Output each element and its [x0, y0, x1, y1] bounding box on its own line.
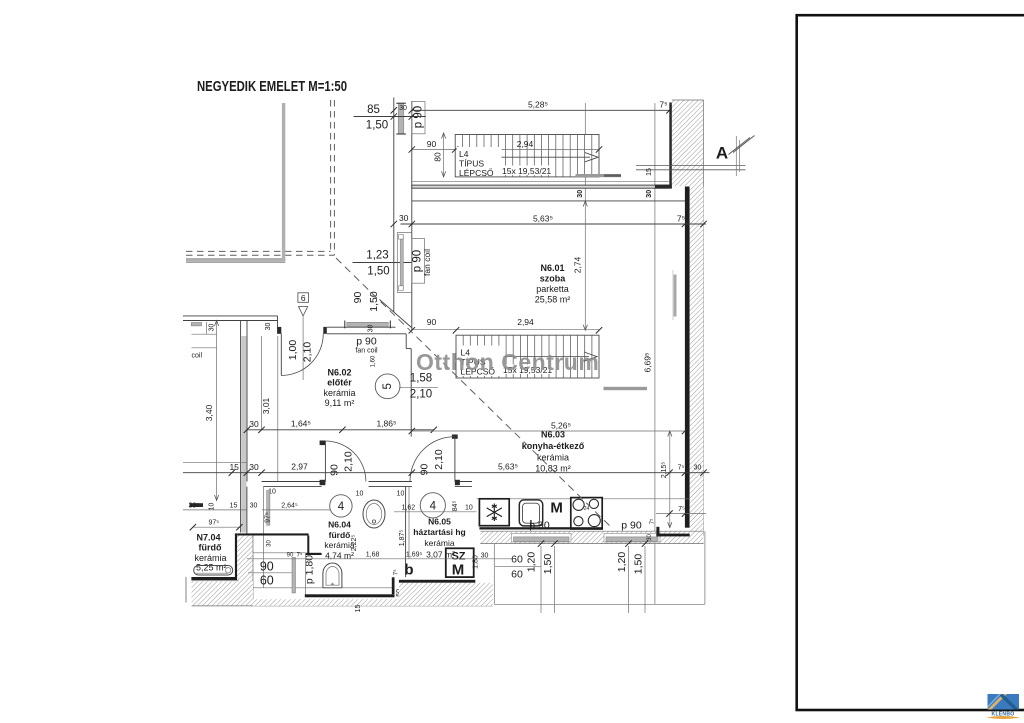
left fan coil window — [191, 323, 201, 326]
svg-text:30: 30 — [250, 503, 258, 510]
room N6.01 — [391, 186, 707, 536]
svg-text:N7.04: N7.04 — [197, 533, 221, 543]
stair labels — [458, 346, 504, 377]
svg-text:97⁵: 97⁵ — [208, 520, 219, 527]
svg-text:2,74: 2,74 — [573, 256, 583, 273]
svg-text:90: 90 — [427, 139, 437, 149]
svg-text:3,07 m²: 3,07 m² — [426, 550, 455, 560]
svg-text:9,11 m²: 9,11 m² — [325, 398, 355, 408]
svg-text:Otthon Centrum: Otthon Centrum — [416, 349, 599, 375]
svg-text:fan coil: fan coil — [355, 348, 378, 355]
fan coil bracket top — [412, 102, 425, 134]
terrace dims right — [628, 546, 630, 613]
svg-text:2,10: 2,10 — [433, 449, 445, 470]
svg-text:7⁵: 7⁵ — [297, 552, 303, 559]
room N6.02 and left walls — [183, 233, 438, 533]
kitchen N6.03 — [409, 420, 706, 613]
svg-text:1,68: 1,68 — [366, 552, 380, 559]
svg-text:5,28⁵: 5,28⁵ — [528, 100, 548, 110]
svg-text:N6.01: N6.01 — [540, 263, 564, 273]
svg-text:90: 90 — [329, 464, 341, 476]
svg-text:7⁵: 7⁵ — [677, 213, 685, 223]
svg-text:10: 10 — [397, 491, 405, 498]
svg-text:7⁵: 7⁵ — [393, 569, 400, 575]
gray balcony slab edge vertical — [282, 103, 285, 261]
middle wall with bath doors — [183, 418, 710, 497]
left neighbour wall faint — [185, 577, 187, 603]
top wall line — [412, 200, 687, 202]
svg-text:90: 90 — [419, 464, 431, 476]
long dashed diagonal — [336, 258, 613, 529]
svg-text:30: 30 — [694, 464, 702, 471]
counter dark underline — [479, 527, 602, 529]
counter top line — [477, 498, 690, 500]
svg-text:b: b — [404, 562, 413, 579]
svg-text:kerámia: kerámia — [323, 388, 355, 398]
dim 3,01 vertical — [261, 336, 263, 430]
wall top line segments — [262, 481, 322, 483]
svg-text:1,50: 1,50 — [632, 554, 644, 575]
svg-text:24: 24 — [584, 506, 590, 512]
stair labels — [457, 147, 502, 176]
svg-text:A: A — [716, 144, 728, 163]
svg-text:5: 5 — [382, 383, 394, 389]
gray balcony slab edge horizontal — [186, 258, 285, 261]
oval washbasin — [363, 500, 385, 528]
dim 2,74 vertical — [584, 201, 586, 330]
hatch strip right of N7.04 — [237, 536, 253, 605]
svg-text:1,50: 1,50 — [367, 266, 389, 278]
svg-text:kerámia: kerámia — [195, 553, 227, 563]
svg-text:1,86⁵: 1,86⁵ — [376, 418, 396, 428]
svg-text:2,94: 2,94 — [517, 139, 534, 149]
svg-text:N6.02: N6.02 — [327, 368, 351, 378]
right wall dark — [685, 187, 690, 528]
svg-text:2,97: 2,97 — [291, 461, 308, 471]
landing slab edge — [412, 180, 669, 182]
svg-text:1,62: 1,62 — [402, 505, 416, 512]
handrail gray bar — [604, 387, 648, 390]
svg-text:15: 15 — [355, 605, 362, 613]
svg-text:3,40: 3,40 — [204, 404, 214, 421]
svg-text:30: 30 — [265, 323, 272, 331]
svg-text:1,87⁵: 1,87⁵ — [399, 530, 406, 547]
svg-text:30: 30 — [577, 190, 584, 198]
svg-text:15x 19,53/21: 15x 19,53/21 — [502, 166, 551, 176]
right white panel — [797, 15, 1024, 710]
door N6.05 leaf + swing — [454, 437, 456, 482]
long dim line y=472.7 — [183, 472, 710, 474]
stove — [571, 498, 602, 529]
svg-text:1,60: 1,60 — [371, 355, 377, 367]
dark bottom wall — [305, 594, 395, 597]
svg-text:2,94: 2,94 — [517, 317, 534, 327]
svg-text:5,63⁵: 5,63⁵ — [533, 213, 553, 223]
labels under N7.04 area dims — [183, 509, 247, 511]
svg-text:háztartási hg: háztartási hg — [413, 527, 465, 537]
svg-text:2,64⁵: 2,64⁵ — [281, 503, 298, 510]
svg-text:3,01: 3,01 — [261, 397, 271, 414]
svg-text:p 90: p 90 — [356, 336, 377, 348]
svg-text:1,20: 1,20 — [526, 552, 538, 573]
svg-text:1,80: 1,80 — [473, 555, 480, 569]
hatch below N7.04 — [192, 582, 253, 606]
svg-text:2,10: 2,10 — [343, 451, 355, 472]
door N6.05 jambs — [452, 435, 458, 439]
svg-text:90: 90 — [260, 560, 274, 574]
svg-text:5,25 m²: 5,25 m² — [196, 563, 227, 573]
svg-text:1,23: 1,23 — [366, 250, 388, 262]
svg-text:1,50: 1,50 — [366, 120, 388, 132]
svg-text:L4: L4 — [459, 149, 469, 159]
wall right of door — [327, 326, 396, 328]
section line A-A — [636, 164, 746, 166]
svg-text:84⁵: 84⁵ — [452, 501, 459, 512]
wall piece dark — [655, 185, 672, 189]
svg-text:coil: coil — [192, 353, 203, 360]
N6.04 bottom line — [247, 587, 395, 589]
svg-text:7⁵: 7⁵ — [649, 518, 656, 524]
svg-text:6,69⁵: 6,69⁵ — [643, 352, 653, 372]
left boundary lines — [216, 321, 218, 501]
bathrooms N6.04 N6.05 N7.04 — [183, 487, 512, 613]
bath door jambs — [320, 480, 326, 485]
svg-text:4: 4 — [430, 501, 437, 513]
svg-text:konyha-étkező: konyha-étkező — [522, 441, 585, 451]
circle 4 N6.05 — [420, 493, 445, 518]
svg-text:60: 60 — [511, 569, 523, 581]
right wall dark line — [669, 103, 672, 189]
fan coil bracket 2 — [412, 239, 425, 284]
dim 90 / 2,94 line — [412, 149, 599, 151]
svg-text:6: 6 — [301, 293, 306, 303]
fridge — [479, 499, 509, 526]
dim 1,58 / 2,10 — [399, 387, 438, 389]
hatch + dark under SZ/M — [399, 580, 475, 583]
dim ext verticals — [584, 103, 586, 201]
hatch wall top right — [672, 100, 704, 186]
svg-text:30: 30 — [647, 534, 653, 541]
svg-text:szoba: szoba — [540, 274, 567, 284]
bottom hatch band with windows — [480, 531, 703, 543]
svg-text:N6.04: N6.04 — [328, 520, 351, 530]
left wall outer line — [393, 98, 395, 313]
svg-text:fan coil: fan coil — [422, 249, 432, 276]
hatch band bottom left — [253, 599, 493, 606]
dim line 30/1,64/1,86 — [247, 429, 434, 431]
handrail gray bar — [576, 174, 622, 177]
svg-text:1,50: 1,50 — [542, 554, 554, 575]
svg-text:15: 15 — [230, 503, 238, 510]
svg-text:30: 30 — [249, 462, 259, 472]
svg-text:1,50: 1,50 — [368, 291, 380, 312]
svg-text:2,22⁵: 2,22⁵ — [351, 535, 358, 552]
toilet — [323, 563, 342, 588]
svg-text:NEGYEDIK EMELET M=1:50: NEGYEDIK EMELET M=1:50 — [197, 79, 347, 95]
step dark — [307, 536, 309, 556]
svg-text:1,64⁵: 1,64⁵ — [291, 418, 311, 428]
small dims near N6.05 — [394, 511, 477, 513]
top exterior wall left segment — [183, 315, 278, 317]
dashed vertical pair — [330, 100, 332, 251]
left wall lines bottom — [183, 462, 247, 464]
svg-text:80: 80 — [433, 152, 443, 162]
chamfer wall diagonals — [380, 300, 412, 328]
towel radiator gray bar — [267, 491, 270, 526]
svg-text:p 90: p 90 — [413, 106, 425, 128]
N6.04 left lines — [246, 487, 248, 596]
window w1 gray bar — [398, 103, 404, 134]
dim 90 / 2,94 — [412, 328, 599, 330]
stair flight 1 — [455, 135, 599, 177]
svg-text:30: 30 — [646, 190, 653, 198]
svg-text:85: 85 — [367, 104, 380, 116]
left wall inner line — [411, 101, 413, 331]
N7.04 dark walls — [235, 533, 237, 579]
svg-text:M: M — [550, 500, 563, 517]
svg-text:7⁵: 7⁵ — [659, 100, 667, 110]
svg-text:M: M — [452, 562, 465, 579]
stair walk line + arrow — [457, 156, 590, 158]
stair hall top — [354, 98, 755, 605]
top dim line 5,28 — [412, 109, 676, 111]
walk line + arrow — [459, 356, 589, 358]
stair flight 2 — [409, 317, 647, 390]
svg-text:30: 30 — [267, 540, 273, 547]
terrace outline — [493, 544, 495, 605]
dim 5,26 — [412, 430, 686, 432]
svg-text:90: 90 — [287, 553, 294, 559]
svg-text:7⁵: 7⁵ — [678, 506, 685, 513]
svg-text:2,10: 2,10 — [410, 389, 432, 401]
door N6.04 leaf + swing — [324, 441, 326, 482]
wall bottom line segments — [263, 486, 321, 488]
svg-text:kerámia: kerámia — [424, 538, 455, 548]
svg-text:5,26⁵: 5,26⁵ — [551, 420, 571, 430]
svg-text:39⁵: 39⁵ — [188, 503, 199, 510]
dashed horizontal pair — [186, 250, 331, 252]
svg-text:10,83 m²: 10,83 m² — [535, 463, 571, 473]
svg-text:10: 10 — [209, 503, 216, 511]
svg-text:p 90: p 90 — [621, 520, 642, 532]
svg-text:LÉPCSŐ: LÉPCSŐ — [459, 168, 494, 178]
svg-text:parketta: parketta — [536, 284, 569, 294]
svg-text:10: 10 — [356, 491, 364, 498]
SZ M box — [446, 548, 474, 577]
dim 85 / 1,50 — [354, 116, 426, 118]
terrace above: dashed outline — [186, 100, 334, 262]
svg-text:1,20: 1,20 — [616, 552, 628, 573]
hatch right wall — [690, 186, 704, 536]
wall N6.04/N6.05 — [405, 487, 407, 577]
svg-text:1,00: 1,00 — [287, 340, 299, 361]
marker 6 — [298, 293, 309, 303]
balcony door gray bar — [674, 275, 677, 317]
svg-text:1,69⁵: 1,69⁵ — [406, 552, 423, 559]
dim 1,23 / 1,50 — [353, 262, 412, 264]
svg-text:60: 60 — [511, 554, 523, 566]
dim 2,15 vertical right — [669, 431, 671, 528]
small dims right wall — [656, 513, 706, 515]
svg-text:kerámia: kerámia — [537, 453, 569, 463]
entrance door leaf + swing — [280, 334, 282, 376]
svg-text:fürdő: fürdő — [329, 530, 351, 540]
svg-text:60: 60 — [260, 574, 274, 588]
sink — [519, 500, 542, 526]
logo bottom right — [986, 694, 1020, 719]
entrance door jambs — [278, 327, 282, 334]
circle 5 — [375, 374, 400, 399]
svg-text:4: 4 — [338, 501, 345, 513]
svg-text:90: 90 — [352, 292, 364, 304]
circle 4 N6.04 — [330, 495, 352, 517]
svg-text:90: 90 — [427, 317, 437, 327]
svg-text:5,63⁵: 5,63⁵ — [498, 461, 518, 471]
dim line 5,63 — [401, 223, 707, 225]
svg-text:30: 30 — [249, 419, 259, 429]
dim line y=558.8 — [247, 558, 512, 560]
svg-text:fürdő: fürdő — [199, 543, 222, 553]
svg-text:30: 30 — [399, 105, 407, 112]
97,5 dim — [193, 526, 240, 528]
right step dark — [656, 527, 659, 537]
svg-text:p 90: p 90 — [529, 520, 550, 532]
svg-text:30: 30 — [399, 213, 409, 223]
svg-text:TÍPUS: TÍPUS — [459, 159, 484, 169]
svg-text:97⁵: 97⁵ — [264, 512, 271, 523]
svg-text:30: 30 — [368, 325, 375, 333]
svg-text:10: 10 — [465, 505, 473, 512]
svg-text:25,58 m²: 25,58 m² — [535, 295, 571, 305]
svg-text:előtér: előtér — [327, 378, 352, 388]
bathtub — [194, 566, 233, 576]
svg-text:7⁵: 7⁵ — [678, 464, 685, 471]
window w2 gray bar — [347, 322, 389, 326]
svg-text:30: 30 — [209, 324, 216, 332]
svg-text:15: 15 — [646, 168, 653, 176]
dim 80 vertical — [443, 133, 445, 177]
